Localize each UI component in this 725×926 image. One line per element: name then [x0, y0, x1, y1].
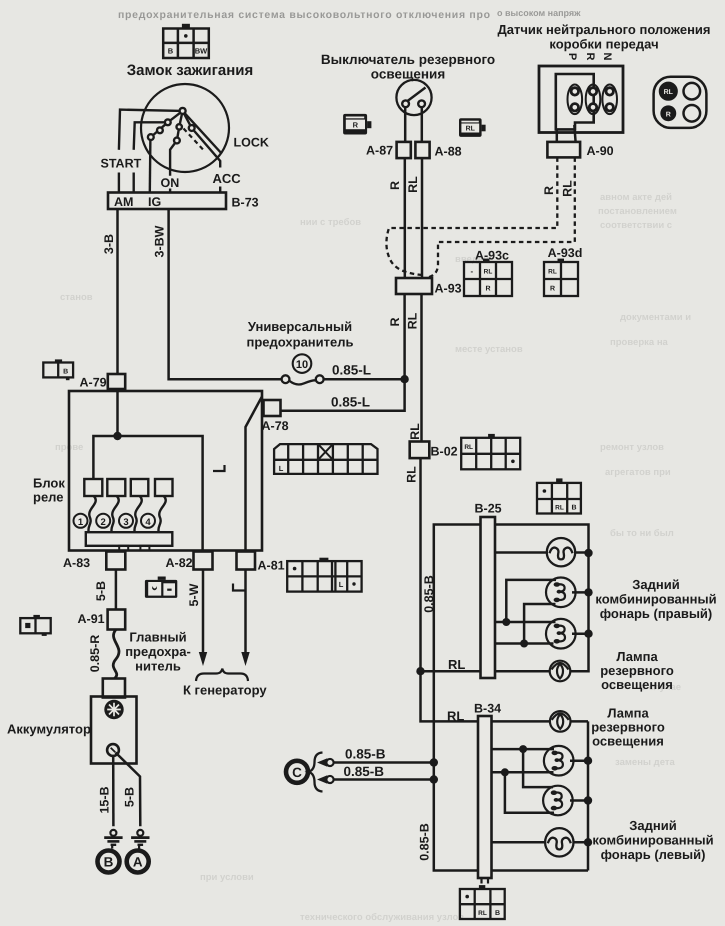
wire 3-BW from B-73 to universal fuse	[169, 209, 282, 379]
wire A-81 to generator	[244, 570, 247, 654]
connector A-91	[108, 610, 126, 630]
brace К генератору	[196, 669, 248, 682]
connector face 5-slot near A-81	[287, 558, 361, 592]
svg-text:освещения: освещения	[592, 734, 664, 749]
relay 1 lead wire	[88, 496, 95, 532]
dashed switch position line	[184, 129, 204, 150]
connector icon near A-79	[43, 359, 73, 380]
connector face A-93c	[464, 259, 512, 296]
ignition switch circle	[141, 84, 229, 172]
svg-text:Лампа: Лампа	[607, 706, 649, 721]
ground 15-B	[104, 830, 122, 849]
battery box	[91, 697, 137, 764]
svg-text:проверка на: проверка на	[610, 337, 669, 348]
wire 0.85-B ground bus	[434, 525, 588, 871]
terminal tick on A-81 wire	[233, 584, 245, 591]
relay 2 coil box	[107, 479, 125, 496]
svg-text:RL: RL	[548, 269, 557, 276]
connector face A-93d	[544, 259, 578, 296]
svg-text:комбинированный: комбинированный	[592, 833, 713, 848]
contact c2	[157, 127, 163, 133]
svg-text:реле: реле	[33, 490, 64, 505]
wire backup lamp row B-34	[491, 720, 589, 723]
bar tab 2	[140, 546, 149, 551]
svg-text:RL: RL	[447, 709, 464, 724]
connector B-34 bar	[478, 716, 492, 878]
svg-text:A-88: A-88	[435, 145, 462, 159]
wire switch to A-87	[404, 107, 407, 142]
connector A-93	[396, 278, 432, 294]
wire filament feed 1 B-34	[491, 749, 555, 787]
svg-text:Задний: Задний	[632, 577, 679, 592]
svg-text:B: B	[168, 46, 174, 55]
svg-text:10: 10	[296, 359, 308, 371]
svg-text:2: 2	[101, 517, 106, 528]
universal fuse symbol	[282, 375, 324, 384]
svg-text:R: R	[388, 317, 402, 326]
svg-text:Лампа: Лампа	[616, 649, 658, 664]
connector icon RL (right)	[459, 118, 486, 137]
wire 0.85-B lower to C	[317, 775, 434, 784]
relay 4 coil box	[155, 479, 173, 496]
svg-text:0.85-L: 0.85-L	[331, 395, 370, 410]
ground 5-B	[131, 830, 149, 849]
wire ground row top	[495, 525, 589, 554]
wire RL below A-93 to B-02	[420, 294, 423, 442]
svg-text:RL: RL	[464, 444, 473, 451]
node A circled	[127, 851, 149, 873]
relay 2 lead wire	[111, 496, 118, 532]
connector face B-73 (2x3 grid with tab)	[163, 24, 209, 58]
contact c1	[165, 119, 171, 125]
backup light switch	[396, 80, 431, 115]
wire pivot arm to START left	[119, 110, 183, 150]
lamp backup right B-25	[550, 661, 571, 682]
svg-text:постановлением: постановлением	[598, 206, 677, 217]
wire START stubs into B-73	[119, 173, 134, 193]
svg-text:замены дета: замены дета	[615, 757, 676, 768]
relay block outline	[69, 391, 262, 551]
svg-text:0.85-B: 0.85-B	[422, 575, 436, 613]
connector A-78	[264, 400, 281, 416]
relay 3 coil box	[131, 479, 149, 496]
svg-text:RL: RL	[406, 176, 420, 193]
wire RL into B-25	[421, 670, 481, 673]
wire R A-87 to A-93	[404, 158, 407, 278]
sensor contact column N	[602, 85, 617, 115]
svg-text:ACC: ACC	[213, 171, 242, 186]
svg-text:резервного: резервного	[600, 663, 674, 678]
junction feed1 B-34	[519, 745, 527, 753]
svg-text:RL: RL	[555, 504, 564, 511]
svg-text:A-81: A-81	[258, 559, 285, 573]
wire 0.85-L fuse to R junction	[324, 378, 405, 381]
wire filament feed 1	[495, 580, 556, 622]
wire 5-B A-83 to A-91	[115, 570, 118, 610]
connector face long grid with L	[274, 444, 377, 474]
svg-text:RL: RL	[484, 269, 493, 276]
connector A-82	[194, 552, 213, 570]
sensor contact column P	[568, 85, 583, 115]
junction feed1	[502, 618, 510, 626]
relay 3 lead wire	[134, 496, 141, 532]
svg-text:A-87: A-87	[366, 144, 393, 158]
dashed wire RL from A-90	[429, 157, 575, 277]
relay number 2	[96, 514, 110, 528]
connector icon R (left)	[343, 114, 371, 135]
wire RL into B-34	[421, 671, 479, 721]
bar tab 1	[119, 546, 128, 551]
svg-text:START: START	[101, 157, 142, 171]
sensor contact column R	[586, 85, 601, 115]
wire RL below B-02	[419, 458, 422, 671]
contact c4	[177, 124, 182, 129]
svg-text:3-BW: 3-BW	[153, 225, 167, 257]
wire 0.85-B upper to C	[317, 758, 434, 767]
svg-text:RL: RL	[466, 126, 476, 133]
node C circled	[286, 761, 308, 783]
connector B-25 bar	[481, 517, 496, 678]
svg-text:станов: станов	[60, 292, 93, 303]
svg-text:бы то ни был: бы то ни был	[610, 528, 674, 539]
contact c5	[174, 138, 180, 144]
wire R below A-93	[403, 294, 406, 379]
svg-text:A-78: A-78	[262, 419, 289, 433]
svg-text:Задний: Задний	[629, 818, 676, 833]
relay number 3	[119, 514, 133, 528]
svg-text:предохранительная система высо: предохранительная система высоковольтног…	[118, 9, 490, 21]
svg-text:3: 3	[123, 517, 128, 528]
wire tail lamp row	[495, 551, 589, 554]
svg-text:A-93c: A-93c	[475, 249, 509, 263]
wire 5-W to generator	[202, 570, 205, 654]
svg-text:A-90: A-90	[587, 144, 614, 158]
svg-text:B-73: B-73	[232, 196, 259, 210]
terminal tick inside relay box	[213, 465, 225, 471]
svg-text:C: C	[292, 765, 302, 780]
svg-text:0.85-B: 0.85-B	[345, 747, 386, 762]
dashed wire R from A-90	[386, 157, 557, 275]
junction RL at B-25	[416, 667, 424, 675]
svg-text:B: B	[63, 368, 68, 375]
svg-text:предохранитель: предохранитель	[247, 335, 354, 350]
svg-text:Аккумулятор: Аккумулятор	[7, 722, 91, 737]
svg-text:B-34: B-34	[474, 702, 501, 716]
svg-text:AM: AM	[114, 195, 133, 209]
junction feed2 B-34	[501, 768, 509, 776]
junction bus lamp2 B-34	[584, 757, 592, 765]
round connector icon 4-pin	[654, 77, 707, 128]
svg-text:RL: RL	[448, 657, 465, 672]
connector face below B-34	[460, 885, 505, 919]
B-25 right-side wiring	[495, 525, 589, 672]
connector icon near A-82	[145, 577, 177, 598]
svg-text:5-B: 5-B	[123, 787, 137, 807]
B-34 right-side wiring	[491, 721, 589, 870]
svg-text:Универсальный: Универсальный	[248, 319, 352, 334]
wire ON from contact	[170, 127, 179, 193]
svg-text:RL: RL	[406, 312, 420, 329]
lamp tail right B-25	[547, 538, 575, 566]
bus right B-34	[587, 721, 590, 870]
svg-text:резервного: резервного	[591, 720, 665, 735]
scan bleed-through ghost text (decorative)	[118, 8, 581, 21]
lamp stop/tail dual left lower B-34	[543, 786, 573, 816]
svg-text:0.85-L: 0.85-L	[332, 363, 371, 378]
svg-text:A-93: A-93	[435, 282, 462, 296]
wire RL A-88 to A-93	[421, 158, 424, 278]
svg-text:L: L	[339, 580, 344, 589]
wire lamp2 right	[572, 591, 589, 594]
svg-text:B: B	[571, 505, 576, 512]
svg-text:15-B: 15-B	[98, 786, 112, 813]
battery output terminal	[107, 744, 119, 756]
svg-text:освещения: освещения	[601, 677, 673, 692]
sensor inner body	[556, 74, 594, 129]
lamp stop/tail dual left upper B-34	[544, 746, 574, 776]
svg-text:комбинированный: комбинированный	[595, 592, 716, 607]
svg-text:агрегатов при: агрегатов при	[605, 467, 671, 478]
junction 3-B node	[113, 432, 121, 440]
svg-text:0.85-B: 0.85-B	[418, 823, 432, 861]
svg-text:LOCK: LOCK	[234, 136, 269, 150]
connector A-87	[397, 142, 411, 158]
fusible link wire 0.85-R	[113, 630, 119, 679]
svg-text:Выключатель резервного: Выключатель резервного	[321, 52, 495, 67]
svg-text:К генератору: К генератору	[183, 683, 267, 698]
svg-text:Датчик нейтрального положения: Датчик нейтрального положения	[498, 22, 711, 37]
svg-text:A-83: A-83	[63, 556, 90, 570]
svg-text:P: P	[566, 53, 578, 60]
relay 4 lead wire	[158, 496, 165, 532]
svg-text:RL: RL	[405, 466, 419, 483]
svg-text:R: R	[388, 181, 402, 190]
svg-text:A-91: A-91	[78, 612, 105, 626]
junction 0.85-B lower	[430, 775, 438, 783]
svg-text:5-W: 5-W	[187, 583, 201, 606]
svg-text:RL: RL	[408, 423, 422, 440]
svg-text:при услови: при услови	[200, 872, 254, 883]
svg-text:Главный: Главный	[129, 630, 186, 645]
wire 0.85-L from A-78	[281, 379, 405, 411]
svg-text:A-79: A-79	[80, 376, 107, 390]
svg-text:B: B	[104, 855, 114, 870]
wire filament feed 2	[495, 604, 556, 644]
brace at node C	[309, 753, 323, 792]
svg-text:A-82: A-82	[166, 556, 193, 570]
svg-text:ремонт узлов: ремонт узлов	[600, 442, 664, 453]
fuse rating circled 10	[293, 354, 312, 373]
svg-text:нии с требов: нии с требов	[300, 217, 361, 228]
wire LOCK arm	[183, 111, 222, 154]
wire lamp2 right B-34	[570, 759, 588, 762]
svg-text:Блок: Блок	[33, 476, 65, 491]
wire contact to START second	[134, 122, 168, 150]
svg-text:R: R	[353, 120, 359, 129]
svg-text:1: 1	[78, 517, 84, 528]
lamp stop/tail dual right lower B-25	[546, 619, 576, 649]
sensor stem wires	[557, 125, 576, 142]
junction feed2	[520, 640, 528, 648]
wire switch to A-88	[421, 107, 424, 142]
svg-text:B-25: B-25	[475, 502, 502, 516]
connector A-90	[547, 142, 580, 158]
switch pivot	[180, 108, 186, 114]
svg-text:освещения: освещения	[371, 67, 445, 82]
svg-text:месте установ: месте установ	[455, 344, 523, 355]
relay 1 coil box	[84, 479, 102, 496]
svg-text:3-B: 3-B	[102, 234, 116, 254]
arrowhead A-81 wire	[241, 652, 249, 666]
wire ACC from contact	[192, 128, 221, 193]
ignition switch assembly	[119, 84, 229, 193]
svg-text:R: R	[584, 53, 596, 61]
junction bus lamp3	[584, 630, 592, 638]
svg-text:N: N	[601, 53, 613, 61]
node B circled	[98, 851, 120, 873]
junction bus lamp3 B-34	[584, 796, 592, 804]
connector B-73 box	[108, 193, 226, 210]
bus right B-25	[570, 553, 588, 671]
svg-text:авном акте дей: авном акте дей	[600, 192, 672, 203]
svg-text:IG: IG	[148, 195, 161, 209]
connector A-83	[106, 552, 125, 570]
connector A-79	[108, 374, 125, 389]
relay number 4	[141, 514, 155, 528]
wire pivot arms	[168, 111, 192, 128]
svg-text:-: -	[470, 267, 473, 276]
svg-text:B-02: B-02	[431, 445, 458, 459]
wire 3-B from B-73 to A-79	[116, 209, 119, 374]
relay number 1	[74, 514, 88, 528]
lamp tail left B-34	[545, 828, 573, 856]
wire backup lamp row	[495, 670, 550, 673]
wire 15-B	[112, 756, 115, 826]
svg-text:R: R	[542, 186, 556, 195]
svg-text:технического обслуживания узло: технического обслуживания узлов	[300, 912, 464, 923]
connector icon near A-91	[20, 615, 50, 636]
svg-text:ON: ON	[161, 176, 180, 190]
wire A-81 to A-78 inside box	[246, 397, 263, 551]
svg-text:BW: BW	[195, 46, 208, 55]
connector A-81	[237, 552, 256, 570]
main fuse holder box	[103, 679, 125, 698]
svg-text:документами и: документами и	[620, 312, 691, 323]
lamp backup left B-34	[550, 711, 571, 732]
relay output bar	[86, 532, 173, 546]
neutral position sensor box	[539, 66, 623, 133]
svg-text:4: 4	[145, 517, 151, 528]
connector B-02	[410, 442, 430, 459]
svg-text:нитель: нитель	[135, 659, 181, 674]
svg-text:фонарь (левый): фонарь (левый)	[601, 847, 706, 862]
svg-text:RL: RL	[478, 910, 487, 917]
svg-text:RL: RL	[664, 89, 674, 96]
wire tail lamp row B-34	[491, 841, 589, 844]
B-34 bar stem	[482, 878, 489, 884]
svg-text:R: R	[485, 286, 490, 293]
svg-text:L: L	[279, 464, 284, 473]
junction bus tail B-34	[584, 838, 592, 846]
wire 5-B battery	[116, 753, 141, 827]
svg-text:соответствии с: соответствии с	[600, 220, 672, 231]
svg-text:R: R	[666, 112, 671, 119]
wire IG from contact to B-73	[149, 137, 152, 192]
junction bus lamp2	[584, 588, 592, 596]
svg-text:0.85-R: 0.85-R	[88, 635, 102, 673]
junction 0.85-B upper	[430, 758, 438, 766]
battery positive terminal	[104, 700, 123, 719]
arrowhead 5-W	[199, 652, 207, 666]
svg-text:5-B: 5-B	[94, 581, 108, 601]
svg-text:предохра-: предохра-	[125, 644, 191, 659]
junction fuse/R wire	[400, 375, 408, 383]
connector face next to B-02	[461, 434, 520, 469]
svg-text:Замок зажигания: Замок зажигания	[127, 62, 254, 79]
connector face above B-25	[537, 478, 581, 513]
svg-text:R: R	[550, 286, 555, 293]
connector A-88	[415, 142, 429, 158]
svg-text:о высоком напряж: о высоком напряж	[497, 8, 581, 18]
svg-text:RL: RL	[561, 180, 575, 197]
wire 3-B inside relay box	[116, 389, 119, 436]
wire contact chain c1-c3	[151, 122, 168, 137]
svg-text:коробки передач: коробки передач	[549, 37, 658, 52]
contact c6	[189, 125, 195, 131]
svg-text:фонарь (правый): фонарь (правый)	[600, 606, 713, 621]
wire relay feed rail	[93, 436, 202, 551]
wire filament feed 2 B-34	[491, 772, 555, 813]
lamp stop/tail dual right upper B-25	[546, 578, 576, 608]
contact c3	[148, 134, 154, 140]
svg-text:B: B	[495, 910, 500, 917]
wire lamp3 right	[572, 632, 589, 635]
svg-text:0.85-B: 0.85-B	[344, 764, 385, 779]
svg-text:A-93d: A-93d	[548, 246, 583, 260]
svg-text:A: A	[133, 855, 143, 870]
wire lamp3 right B-34	[570, 799, 588, 802]
junction bus top	[584, 549, 592, 557]
